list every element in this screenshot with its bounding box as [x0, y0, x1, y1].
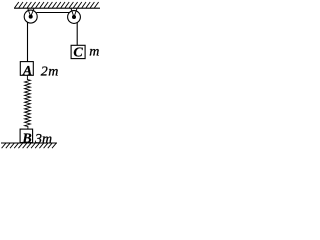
svg-text:m: m: [89, 45, 99, 60]
ground line: [1, 142, 57, 144]
svg-text:3m: 3m: [34, 132, 52, 147]
block A: [20, 62, 33, 76]
block C: [71, 45, 85, 58]
pulley P2: [68, 11, 81, 24]
block B: [20, 129, 32, 143]
ceiling line: [14, 7, 100, 9]
ground hatching: [2, 143, 57, 148]
pulley P1: [24, 10, 37, 23]
svg-text:2m: 2m: [41, 64, 59, 79]
spring S: [25, 75, 31, 129]
wire rope horizontal between pulleys: [36, 12, 70, 14]
svg-text:C: C: [73, 46, 83, 61]
ceiling hatching: [15, 2, 99, 8]
pulley P2 hub: [72, 15, 76, 19]
wire rope left vertical to block A: [27, 19, 29, 62]
pulley P1 hub: [29, 15, 33, 19]
wire rope right vertical to block C: [76, 19, 78, 45]
pulley P1 mount: [28, 8, 34, 16]
pulley P2 mount: [71, 8, 77, 17]
